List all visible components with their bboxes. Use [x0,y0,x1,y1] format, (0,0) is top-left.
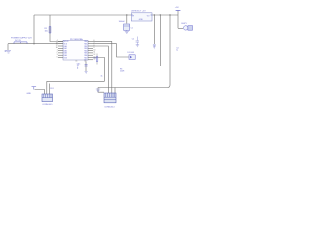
resistor R1 pull-up [45,27,51,34]
svg-text:5: 5 [57,56,58,58]
svg-text:C1: C1 [131,27,133,29]
svg-text:7: 7 [94,43,95,45]
wire +5V flag stem [177,11,179,29]
svg-text:R2: R2 [94,58,96,60]
svg-text:16: 16 [85,61,87,63]
wire buzzer lead [178,27,183,29]
diode D1 on power input [14,42,27,44]
svg-text:C2: C2 [132,39,134,41]
svg-text:18: 18 [56,47,58,49]
svg-text:LM7805CT +5V: LM7805CT +5V [131,10,146,12]
crystal caps below IC [77,65,88,69]
wire right loop down to bottom [115,15,170,88]
wire IC pin to LED [93,44,129,57]
power connector J1 [5,50,11,53]
LED D2 [128,52,136,59]
svg-text:DC IN: DC IN [15,40,21,42]
IC U1 body [63,38,88,60]
junction dots [33,14,170,44]
ground bars left of connector2 [96,89,100,91]
IC pin numbers right [94,40,96,60]
power supply text [11,37,32,42]
IC pin labels left [64,41,70,59]
svg-text:1: 1 [57,49,58,51]
svg-text:1000uF: 1000uF [119,21,126,23]
+5V power flag [175,7,181,10]
wire power input horizontal [8,43,63,45]
IC right pin stubs [88,41,93,59]
wire connector1 pin drop 2 [48,84,50,95]
wire top rail VCC [34,14,131,16]
IC pin labels right [84,41,88,61]
capacitor C1 at regulator input [124,24,133,30]
wire IC bottom pin to bottom bus [93,58,105,82]
svg-text:PIC16F628A: PIC16F628A [70,38,83,41]
svg-text:BUZ1: BUZ1 [182,23,188,25]
capacitor C2 at regulator gnd [132,37,139,45]
svg-text:GND: GND [139,19,144,21]
buzzer BUZ1 [182,23,193,30]
ground below C3 [153,46,156,49]
svg-text:CONN-SIL4: CONN-SIL4 [104,107,114,109]
svg-text:10: 10 [94,49,96,51]
ground below C1 [125,30,129,34]
svg-text:2: 2 [57,52,58,54]
svg-text:9: 9 [94,47,95,49]
wire bottom gnd segment [114,88,116,94]
wire left vertical from power to rail [33,15,35,44]
svg-text:GND: GND [27,93,32,95]
svg-text:1u: 1u [176,50,178,52]
svg-text:8: 8 [94,45,95,47]
wire reset pull-up vertical [50,15,63,42]
resistor R2 vertical [94,54,98,65]
connector J3 (bottom center) [104,93,116,109]
wire IC pin to connector2 pin b [93,41,112,93]
svg-text:14: 14 [56,43,58,45]
svg-text:10k: 10k [45,30,48,32]
capacitor C3 at regulator output [153,44,156,45]
wire bottom bus to connector1 [47,80,105,82]
wire mystery vertical [159,15,161,66]
svg-text:17: 17 [56,45,58,47]
svg-text:D1 LED: D1 LED [128,52,135,54]
gnd flag left of connector1 [27,87,37,95]
IC left pin stubs [58,41,63,57]
wire power connector drop [7,44,9,50]
ground below C2 [136,45,139,47]
wire output cap drop [153,15,155,44]
wire connector1 pin drop 1 [46,81,48,94]
svg-text:6: 6 [94,40,95,42]
svg-text:4: 4 [57,40,58,42]
svg-text:3: 3 [57,54,58,56]
svg-text:1k: 1k [101,76,103,78]
IC pin numbers left [56,40,58,58]
wire gnd left of connector2 [98,87,115,89]
wire gnd drop connector2 [98,88,104,93]
ground below crystal cap [85,71,88,73]
svg-text:220R: 220R [120,71,125,73]
wire regulator input junction drop [126,15,128,24]
svg-text:SV1: SV1 [50,88,53,90]
svg-text:15: 15 [76,61,78,63]
svg-text:11: 11 [94,52,96,54]
wire connector1 left feed [35,90,45,95]
wire IC pin to connector2 pin a [93,46,108,93]
svg-text:12: 12 [94,54,96,56]
connector J2 (bottom left) [42,88,54,106]
wire crystal cap below IC [85,62,87,72]
regulator U2 7805 [131,10,152,21]
svg-text:+5V: +5V [175,7,179,9]
wire regulator output rail [152,14,178,16]
svg-text:CONN-SIL5: CONN-SIL5 [42,104,52,106]
